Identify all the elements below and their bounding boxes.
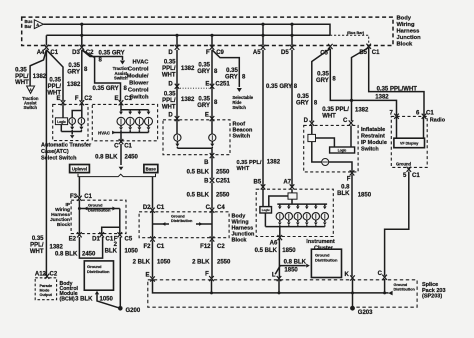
label: 1850 (arrow) bbox=[284, 267, 298, 273]
wire: 0.5 BLK 2550 beacon to C251 bbox=[211, 157, 213, 179]
node: dots at A5 drop bbox=[261, 23, 264, 37]
label: Bus Bar (inside junction block) bbox=[25, 19, 34, 29]
svg-text:Switch: Switch bbox=[361, 147, 379, 153]
svg-text:C2: C2 bbox=[84, 96, 92, 102]
wire: 2 BLK 1050 from F/C5 down to G200 bbox=[119, 237, 121, 307]
box: Radio, dashed bbox=[391, 116, 427, 167]
wire: drop from bus to A4 bbox=[45, 35, 47, 45]
node: junction dot bus2 at F drop bbox=[210, 34, 213, 37]
connector pin 5/C1 (radio) bbox=[403, 167, 420, 179]
lamp: ATC indicator lamp 1 bbox=[69, 118, 76, 125]
wire: 0.5 BLK 2550 to body block C/C4 bbox=[211, 183, 213, 209]
node: splice dot L bbox=[278, 291, 281, 294]
svg-text:E2: E2 bbox=[69, 237, 77, 243]
svg-text:D: D bbox=[168, 113, 173, 119]
svg-text:0.5 BLK: 0.5 BLK bbox=[255, 248, 278, 254]
lamp: cluster illumination lamps x6 bbox=[276, 213, 328, 220]
svg-text:Distribution: Distribution bbox=[87, 269, 110, 274]
svg-text:HVAC: HVAC bbox=[98, 130, 110, 135]
svg-text:A4: A4 bbox=[37, 50, 45, 56]
svg-text:D: D bbox=[304, 118, 309, 124]
label: 1382 (D upper) bbox=[181, 66, 195, 72]
wire: F/C9 wire down (0.35 GRY 8) bbox=[211, 50, 213, 118]
svg-text:1850: 1850 bbox=[358, 193, 372, 199]
svg-text:WHT: WHT bbox=[15, 80, 29, 86]
svg-text:Ground: Ground bbox=[394, 283, 408, 287]
svg-text:2 BLK: 2 BLK bbox=[192, 259, 210, 265]
svg-text:A6: A6 bbox=[270, 240, 278, 246]
wire: bus bar line 2 (horizontal) bbox=[46, 34, 330, 36]
label: Inflatable Restraint IP Module Switch bbox=[361, 127, 387, 153]
connector F2/C1 bbox=[143, 236, 164, 250]
tag: Base option box bbox=[144, 165, 158, 173]
svg-text:D3: D3 bbox=[72, 50, 80, 56]
connector A4/C1 bbox=[37, 45, 59, 56]
connector C/C1 (HVAC output) bbox=[114, 139, 132, 150]
svg-text:VF Display: VF Display bbox=[400, 142, 418, 146]
connector pin A5 bbox=[253, 45, 265, 56]
svg-text:Block: Block bbox=[57, 222, 70, 228]
svg-text:F12: F12 bbox=[200, 244, 211, 250]
svg-text:C: C bbox=[378, 271, 383, 277]
svg-text:Wiring: Wiring bbox=[397, 22, 415, 28]
svg-text:1050: 1050 bbox=[100, 297, 114, 303]
svg-text:0.5 BLK: 0.5 BLK bbox=[187, 169, 210, 175]
svg-text:D: D bbox=[168, 81, 173, 87]
label: 1050 (ground dist) bbox=[100, 297, 114, 303]
label: Parade Mode Output bbox=[40, 284, 53, 297]
label: 2550 (beacon upper) bbox=[216, 169, 230, 175]
svg-text:0.35 GRY: 0.35 GRY bbox=[99, 51, 125, 57]
wire: inflatable C to logic bbox=[350, 125, 352, 147]
label: 0.35 PPL/WHT (A4 right) bbox=[47, 78, 61, 97]
wire: ATC logic bottom to rail bbox=[60, 125, 62, 132]
label: 2 BLK (G200 wire) bbox=[105, 242, 118, 255]
wire: drop from bus to D3 bbox=[81, 24, 83, 45]
svg-text:F: F bbox=[205, 271, 209, 277]
svg-text:GRY: GRY bbox=[197, 103, 210, 109]
svg-text:0.35: 0.35 bbox=[297, 94, 309, 100]
wire: 2 BLK 1050 to splice E bbox=[152, 241, 154, 278]
connector pin A6 (cluster out) bbox=[270, 235, 282, 246]
wire: 0.8 BLK 1850 inflatable to splice K bbox=[351, 175, 353, 277]
connector C/C4 bbox=[206, 205, 226, 213]
svg-text:(Bus Bar): (Bus Bar) bbox=[347, 31, 365, 35]
svg-text:L: L bbox=[272, 272, 276, 278]
wire: uplevel drop to F3/C1 bbox=[78, 177, 80, 197]
connector pin 6 (radio) bbox=[416, 111, 434, 119]
ground G203 bbox=[350, 306, 373, 316]
svg-text:1850: 1850 bbox=[282, 248, 296, 254]
component: cluster logic box bbox=[260, 207, 272, 213]
svg-text:F3: F3 bbox=[70, 194, 78, 200]
wire: cluster lamp bottoms bbox=[278, 220, 327, 227]
svg-text:0.8 BLK: 0.8 BLK bbox=[284, 260, 307, 266]
wire: C5 straight branch to radio pin 7 (0.35 GRY 8) bbox=[330, 49, 396, 116]
wire: ATC pin E to logic bbox=[62, 104, 64, 117]
svg-text:Switch: Switch bbox=[233, 134, 251, 140]
svg-text:0.8 BLK: 0.8 BLK bbox=[95, 155, 118, 161]
label: Ground Distribution (IP block) bbox=[88, 202, 111, 212]
lamp: roof beacon lamp 2 bbox=[209, 134, 216, 141]
label: 8 (D5) bbox=[294, 84, 298, 90]
connector pin E (splice) bbox=[145, 272, 154, 281]
wire: beacon bottom rail and exit bbox=[177, 148, 212, 155]
label: 0.35 GRY (D5 label upper) bbox=[266, 84, 292, 90]
component: buzzer circle bbox=[322, 159, 329, 166]
connector A12/C2 (BCM) bbox=[35, 271, 58, 279]
label: 0.5 BLK (beacon lower) bbox=[187, 193, 210, 199]
svg-text:3 BLK: 3 BLK bbox=[75, 297, 93, 303]
lamp: ATC indicator lamp 2 bbox=[78, 118, 85, 125]
svg-text:Radio: Radio bbox=[430, 117, 446, 123]
svg-text:WHT: WHT bbox=[162, 105, 176, 111]
wire: cluster top rail bbox=[277, 203, 327, 205]
svg-text:GRY: GRY bbox=[316, 78, 329, 84]
label: IP Wiring Harness Junction Block bbox=[50, 202, 71, 228]
label: 0.35 PPL/ WHT (A5 near cluster) bbox=[237, 160, 262, 172]
svg-text:Cluster: Cluster bbox=[314, 245, 334, 251]
connector pin E (roof beacon) bbox=[205, 113, 214, 122]
tag: Uplevel option box bbox=[70, 165, 90, 173]
wire: splice L drop bbox=[278, 280, 280, 293]
label: 1850 (cluster out) bbox=[282, 248, 296, 254]
svg-text:D2: D2 bbox=[143, 205, 151, 211]
label: 8 (E lower) bbox=[214, 100, 218, 106]
svg-text:1382: 1382 bbox=[267, 160, 281, 166]
connector pin L (splice) bbox=[272, 272, 281, 281]
label: 0.35 PPL/WHT (B5 straight) bbox=[377, 86, 418, 92]
wire: splice F drop bbox=[211, 280, 213, 293]
box: Ground Distribution (cluster) bbox=[311, 249, 341, 277]
wire: ground distribution to G200 with up arrow bbox=[95, 291, 121, 309]
wire: drop from bus to F/C9 bbox=[211, 35, 213, 45]
svg-text:PPL/: PPL/ bbox=[48, 84, 62, 90]
wire: cluster output to A6 bbox=[279, 227, 281, 237]
svg-text:Ground: Ground bbox=[171, 214, 185, 218]
component: inflatable logic box bbox=[330, 147, 355, 153]
svg-text:Inflatable: Inflatable bbox=[361, 127, 385, 133]
svg-text:G200: G200 bbox=[126, 308, 141, 314]
svg-text:1382: 1382 bbox=[33, 74, 47, 80]
svg-text:IP Module: IP Module bbox=[361, 140, 387, 146]
svg-text:0.35 PPL/: 0.35 PPL/ bbox=[322, 107, 349, 113]
svg-text:E: E bbox=[56, 96, 60, 102]
connector pin 7 (radio) bbox=[389, 111, 398, 119]
label: 1850 (inflatable out) bbox=[358, 193, 372, 199]
ground G200 bbox=[118, 306, 141, 314]
svg-text:PPL/: PPL/ bbox=[162, 66, 176, 72]
label: 0.35 GRY (E lower) bbox=[197, 97, 210, 110]
wire: HVAC lamp drops with arrows bbox=[119, 110, 150, 115]
svg-text:2 BLK: 2 BLK bbox=[133, 259, 151, 265]
svg-text:G203: G203 bbox=[358, 310, 373, 316]
wire: ATC lamp bottoms to rail bbox=[70, 124, 83, 131]
component: inflatable series element (square) bbox=[308, 134, 316, 141]
svg-text:F: F bbox=[347, 176, 351, 182]
svg-text:PPL/: PPL/ bbox=[30, 243, 44, 249]
label: 0.5 BLK (beacon upper) bbox=[187, 169, 210, 175]
svg-text:B: B bbox=[204, 178, 209, 184]
connector E at C251 bbox=[205, 81, 230, 89]
svg-text:Blower: Blower bbox=[129, 81, 149, 87]
wire: A4 right branch to ATC pin E (0.35 PPL/WHT 1382) bbox=[46, 50, 63, 101]
wire: C feed through body block bbox=[211, 212, 213, 238]
connector D1/C1 (IP) bbox=[92, 232, 114, 242]
svg-text:E: E bbox=[205, 81, 209, 87]
svg-text:GRY: GRY bbox=[67, 70, 80, 76]
connector pin D (roof beacon) bbox=[168, 113, 179, 122]
wire: D3 branch to HVAC pin E/C1 (0.35 GRY 8) bbox=[82, 50, 121, 101]
svg-text:Module/: Module/ bbox=[127, 74, 149, 80]
svg-text:0.35: 0.35 bbox=[317, 72, 329, 78]
label: Traction Assist Switch (left) bbox=[22, 96, 39, 110]
label: Body Control Module (BCM) bbox=[60, 281, 79, 303]
wire: F/C9 branch to selectable ride switch bbox=[212, 50, 242, 92]
label: 1050 (F2) bbox=[157, 259, 171, 265]
svg-text:Instrument: Instrument bbox=[306, 239, 335, 245]
svg-text:Parade: Parade bbox=[40, 284, 53, 288]
wire: radio pin feeds to VF display bbox=[397, 117, 424, 138]
svg-text:Logic: Logic bbox=[262, 208, 270, 212]
lamp: HVAC illumination lamps x4 bbox=[117, 117, 153, 125]
svg-text:Block: Block bbox=[397, 42, 414, 48]
node: junction dot bus2 at D drop bbox=[175, 34, 178, 37]
wire: D3 main wire down to F/C2 (0.35 GRY 8) bbox=[81, 50, 83, 101]
label: 1050 (G200 wire) bbox=[125, 249, 139, 255]
connector F3/C1 bbox=[70, 194, 93, 201]
wire: 0.8 BLK 1850 arrow into cluster ground dist bbox=[275, 264, 310, 275]
component: VF Display box bbox=[394, 138, 425, 148]
wire: IP internal D1 link bbox=[102, 227, 120, 233]
svg-text:1382: 1382 bbox=[355, 108, 369, 114]
node: dots at D5 drop bbox=[290, 23, 293, 37]
box: IP wiring harness junction block, dashed bbox=[71, 200, 126, 233]
svg-text:0.35: 0.35 bbox=[164, 92, 176, 98]
wire: HVAC output to C/C1 bbox=[120, 133, 122, 141]
connector pin D (inflatable) bbox=[304, 118, 314, 126]
label: 2550 (beacon lower) bbox=[216, 193, 230, 199]
connector B5/C1 bbox=[359, 44, 380, 56]
wire: HVAC bottom rail bbox=[113, 132, 149, 134]
label: 1382 (A4 left) bbox=[33, 74, 47, 80]
svg-text:C: C bbox=[343, 118, 348, 124]
svg-text:1382: 1382 bbox=[50, 245, 64, 251]
label: 2550 (F12) bbox=[217, 259, 231, 265]
wire: A5 to cluster B5 (0.35 PPL/WHT 1382) bbox=[262, 50, 264, 187]
box: Body Wiring Harness Junction Block (bottom), dashed bbox=[139, 212, 229, 238]
svg-text:Ground: Ground bbox=[396, 161, 412, 166]
wire: splice K drop to G203 bbox=[352, 280, 354, 307]
label: 0.35 GRY (C5 straight) bbox=[316, 72, 329, 85]
svg-text:2550: 2550 bbox=[216, 169, 230, 175]
wire: ATC pin F to lamps bbox=[81, 104, 83, 117]
svg-text:B5: B5 bbox=[254, 179, 262, 185]
wire: IP internal to F/C5 exit bbox=[119, 209, 121, 234]
svg-text:Logic: Logic bbox=[338, 148, 347, 152]
wire: square bottom to buzzer line bbox=[312, 142, 322, 162]
wire: cluster square to logic link bbox=[269, 196, 288, 207]
svg-text:0.35: 0.35 bbox=[198, 63, 210, 69]
connector pin B5 (cluster) bbox=[254, 179, 266, 189]
svg-text:Body: Body bbox=[397, 16, 412, 22]
svg-text:D5: D5 bbox=[281, 50, 289, 56]
wire: A4 left branch to traction assist switch bbox=[30, 50, 46, 86]
svg-text:D1: D1 bbox=[92, 237, 100, 243]
svg-text:C1: C1 bbox=[157, 205, 165, 211]
lamp: roof beacon lamp 1 bbox=[174, 134, 181, 141]
svg-text:Distribution: Distribution bbox=[315, 258, 338, 263]
svg-text:C1: C1 bbox=[84, 194, 92, 200]
label: Splice Pack 203 (SP203) bbox=[422, 282, 446, 300]
node: junction dot bus1 at D3 drop bbox=[80, 23, 83, 26]
wire: D3 branch to traction assist switch arrow bbox=[82, 50, 125, 65]
label: 0.35 GRY (D3 main) bbox=[67, 63, 80, 76]
svg-text:Switch: Switch bbox=[24, 105, 38, 110]
svg-text:1050: 1050 bbox=[157, 259, 171, 265]
svg-text:K: K bbox=[344, 272, 349, 278]
label: Roof Beacon Switch bbox=[233, 122, 254, 140]
connector F12/C2 bbox=[200, 236, 225, 250]
svg-text:A: A bbox=[36, 22, 39, 27]
svg-text:Bar: Bar bbox=[25, 24, 32, 29]
wire: ATC rail output arrow bbox=[70, 132, 74, 139]
wire: C5 jog branch to inflatable D (0.35 GRY 8) bbox=[312, 49, 331, 122]
label: Ground Distribution (splice) bbox=[394, 283, 416, 292]
svg-text:GRY: GRY bbox=[225, 75, 238, 81]
label: 2450 (HVAC out) bbox=[125, 155, 139, 161]
wire: beacon lamp feeds bbox=[177, 120, 212, 134]
wire: B5 diagonal branch to inflatable C (0.35 PPL/WHT 1382) bbox=[352, 48, 369, 122]
label: Radio bbox=[430, 117, 446, 123]
wire: pin D wire down (0.35 PPL/WHT 1382) bbox=[176, 50, 178, 118]
box: HVAC control module blower switch, dashed bbox=[92, 104, 157, 140]
svg-text:1382: 1382 bbox=[67, 82, 81, 88]
svg-text:2450: 2450 bbox=[82, 252, 96, 258]
svg-text:Case(ATC): Case(ATC) bbox=[41, 149, 69, 155]
svg-text:0.35: 0.35 bbox=[198, 97, 210, 103]
label: 0.35 GRY (C5 jog) bbox=[296, 94, 309, 107]
svg-text:Uplevel: Uplevel bbox=[72, 166, 87, 171]
svg-text:C1: C1 bbox=[426, 111, 434, 117]
wire: cluster B5 to logic bbox=[262, 189, 264, 206]
wire: splice C drop bbox=[384, 279, 386, 293]
svg-text:GRY: GRY bbox=[197, 69, 210, 75]
svg-text:F2: F2 bbox=[143, 244, 151, 250]
svg-text:WHT: WHT bbox=[162, 73, 176, 79]
wire: A4 center wire down to BCM A12 (0.35 PPL/WHT 1382) bbox=[45, 50, 47, 275]
label: 0.8 BLK (arrow) bbox=[284, 260, 307, 266]
label: 8 (traction branch) bbox=[99, 58, 103, 64]
connector pin A7 (cluster) bbox=[283, 179, 294, 189]
label: 3 BLK (ground dist) bbox=[75, 297, 93, 303]
svg-text:GRY: GRY bbox=[296, 101, 309, 107]
node: splice dot K bbox=[351, 291, 354, 294]
node: junction dot bus2 at D3 drop bbox=[80, 34, 83, 37]
label: 0.8 BLK (HVAC out) bbox=[95, 155, 118, 161]
svg-text:C1: C1 bbox=[157, 244, 165, 250]
label: HVAC Control Module/Blower Control Switch bbox=[127, 60, 150, 101]
wire: inflatable D to resistor bbox=[311, 125, 313, 134]
svg-text:1382: 1382 bbox=[181, 97, 195, 103]
wire: ATC bottom rail bbox=[61, 131, 82, 133]
svg-text:0.35 GRY: 0.35 GRY bbox=[93, 86, 119, 92]
svg-text:WHT: WHT bbox=[322, 114, 336, 120]
svg-text:C4: C4 bbox=[217, 205, 225, 211]
svg-text:C: C bbox=[114, 144, 119, 150]
svg-text:0.35: 0.35 bbox=[15, 68, 27, 74]
svg-text:Distribution: Distribution bbox=[394, 288, 416, 292]
svg-text:Control: Control bbox=[128, 67, 149, 73]
label: Body Wiring Harness Junction Block (top right) bbox=[397, 16, 422, 48]
label: Body Wiring Harness Junction Block (bottom) bbox=[232, 214, 256, 244]
node: splice dot F bbox=[210, 291, 213, 294]
wire: (Bus Bar) dashed extension to B5 bbox=[330, 35, 369, 45]
wire: base drop to D2/C1 bbox=[152, 177, 154, 209]
svg-text:1850: 1850 bbox=[284, 267, 298, 273]
svg-text:2550: 2550 bbox=[216, 193, 230, 199]
connector pin D5 bbox=[281, 45, 294, 56]
wire: buzzer to F exit bbox=[329, 162, 352, 172]
svg-text:0.8 BLK: 0.8 BLK bbox=[55, 252, 78, 258]
connector pin F (splice) bbox=[205, 271, 214, 281]
svg-text:Select Switch: Select Switch bbox=[41, 156, 77, 162]
wire: drop from bus to pin D bbox=[176, 35, 178, 45]
label: 0.35 GRY (selectable branch) bbox=[225, 68, 238, 81]
svg-text:C251: C251 bbox=[216, 178, 231, 184]
label: (Bus Bar) bbox=[347, 31, 365, 35]
svg-text:Distribution: Distribution bbox=[88, 207, 111, 212]
label: Instrument Cluster bbox=[306, 239, 335, 251]
svg-text:0.35 PPL/: 0.35 PPL/ bbox=[237, 160, 262, 166]
svg-text:C2: C2 bbox=[217, 244, 225, 250]
svg-text:C1: C1 bbox=[106, 237, 114, 243]
svg-text:Block: Block bbox=[232, 238, 248, 244]
wire: radio ground to splice C bbox=[385, 172, 409, 276]
wire: option split brace bbox=[78, 174, 156, 177]
label: 8 (F upper) bbox=[214, 69, 218, 75]
connector pin E (ATC) bbox=[56, 96, 65, 105]
wire: splice bus bar bbox=[153, 280, 393, 295]
svg-text:C2: C2 bbox=[50, 271, 58, 277]
connector pin D bbox=[168, 45, 179, 56]
wire: ATC left lamp riser bbox=[72, 111, 82, 118]
connector D at C251 bbox=[168, 81, 179, 89]
svg-text:Base: Base bbox=[146, 166, 157, 171]
wire: HVAC feed to top rail bbox=[120, 104, 122, 109]
connector pin B (beacon out) bbox=[204, 153, 214, 166]
svg-text:C251: C251 bbox=[215, 81, 230, 87]
svg-text:WHT: WHT bbox=[30, 249, 44, 255]
label: 1382 (A5) bbox=[267, 160, 281, 166]
connector pin F (inflatable out) bbox=[347, 170, 355, 182]
wire: 0.8 BLK 2450 jumper E2 to D1 bbox=[79, 237, 102, 258]
svg-text:Mode: Mode bbox=[40, 289, 50, 293]
svg-text:Distribution: Distribution bbox=[171, 219, 193, 223]
svg-text:C: C bbox=[206, 205, 211, 211]
wire: drop from bus to A5 bbox=[262, 24, 264, 45]
svg-text:A5: A5 bbox=[253, 50, 261, 56]
label: Ground (radio) bbox=[396, 161, 412, 166]
label: 1382 (A4 right) bbox=[67, 82, 81, 88]
box: Roof Beacon Switch, dashed bbox=[163, 120, 230, 155]
svg-text:BLK: BLK bbox=[337, 191, 350, 197]
svg-text:Switch: Switch bbox=[232, 105, 246, 110]
label: 8 (C5 jog) bbox=[314, 101, 318, 107]
connector D3/C2 bbox=[72, 45, 94, 56]
svg-text:2550: 2550 bbox=[217, 259, 231, 265]
wire: body block ground bus arrows bbox=[153, 222, 213, 226]
